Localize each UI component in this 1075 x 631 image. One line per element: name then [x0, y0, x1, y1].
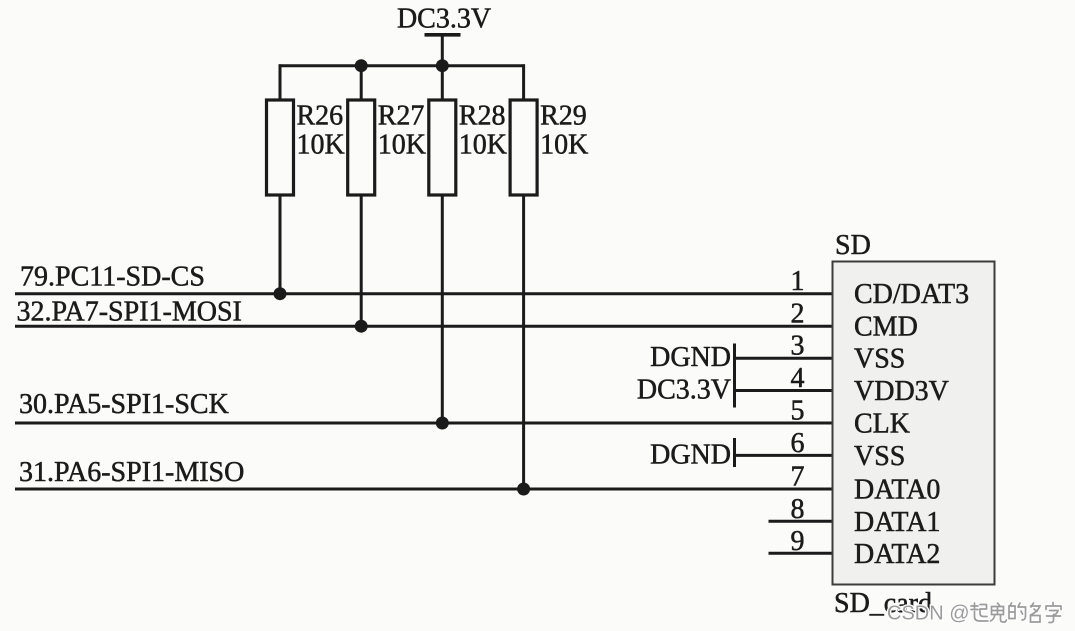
svg-text:3: 3 [791, 331, 805, 362]
svg-text:5: 5 [791, 396, 805, 427]
svg-text:10K: 10K [378, 130, 426, 161]
junction dot SCK R28 [436, 417, 449, 430]
svg-text:DGND: DGND [650, 440, 731, 471]
junction dot CS R26 [274, 287, 287, 300]
svg-text:2: 2 [791, 299, 805, 330]
svg-text:9: 9 [791, 526, 805, 557]
svg-text:R27: R27 [378, 101, 425, 132]
wire R28 bottom to net SCK [441, 194, 444, 424]
svg-text:8: 8 [791, 494, 805, 525]
wire stub to R26 top [279, 64, 282, 101]
svg-text:SD: SD [835, 230, 871, 261]
svg-text:VDD3V: VDD3V [854, 376, 949, 407]
wire net tick pins 3-4 [733, 344, 736, 408]
svg-text:1: 1 [791, 266, 805, 297]
svg-text:DC3.3V: DC3.3V [397, 4, 491, 35]
watermark CJK glyph de [1009, 603, 1026, 620]
resistor R28 [429, 100, 507, 195]
svg-text:VSS: VSS [854, 441, 905, 472]
wire net tick pin 6 [733, 438, 736, 467]
svg-text:CLK: CLK [854, 409, 910, 440]
wire pin 3 stub [735, 357, 833, 360]
wire stub to R27 top [360, 66, 363, 102]
watermark CJK glyph zi [1046, 603, 1061, 623]
resistor R29 [510, 100, 588, 195]
svg-text:VSS: VSS [854, 344, 905, 375]
wire R27 bottom to net MOSI [360, 194, 363, 327]
watermark CJK glyph qi [971, 603, 988, 621]
svg-text:R29: R29 [540, 101, 587, 132]
wire net MISO to pin 7 [15, 488, 833, 491]
svg-text:DATA1: DATA1 [854, 507, 940, 538]
wire pin 4 stub [735, 389, 833, 392]
wire stub to R29 top [522, 64, 525, 101]
svg-text:CSDN @: CSDN @ [887, 603, 970, 625]
wire bus DC3.3V horizontal [279, 64, 525, 67]
svg-text:32.PA7-SPI1-MOSI: 32.PA7-SPI1-MOSI [17, 297, 242, 328]
svg-text:31.PA6-SPI1-MISO: 31.PA6-SPI1-MISO [19, 457, 244, 488]
svg-text:4: 4 [791, 363, 805, 394]
svg-text:DC3.3V: DC3.3V [637, 375, 731, 406]
svg-text:R28: R28 [459, 101, 506, 132]
wire R26 bottom to net CS [279, 194, 282, 294]
wire pin 8 stub [769, 520, 833, 523]
svg-text:CD/DAT3: CD/DAT3 [854, 279, 969, 310]
wire R29 bottom to net MISO [522, 194, 525, 490]
svg-text:DATA0: DATA0 [854, 475, 940, 506]
svg-text:DATA2: DATA2 [854, 539, 940, 570]
wire power stub [441, 35, 444, 67]
wire net SCK to pin 5 [15, 422, 833, 425]
svg-text:10K: 10K [297, 130, 345, 161]
wire net CS to pin 1 [15, 292, 833, 295]
watermark CJK glyph gui [991, 603, 1007, 622]
connector U1 SD card box [833, 262, 995, 585]
watermark CJK glyph ming [1031, 603, 1041, 622]
svg-text:R26: R26 [297, 101, 344, 132]
svg-text:CMD: CMD [854, 312, 918, 343]
svg-text:DGND: DGND [650, 342, 731, 373]
wire pin 9 stub [769, 552, 833, 555]
power symbol DC3.3V bar [425, 33, 461, 37]
resistor R26 [267, 100, 345, 195]
junction dot MISO R29 [517, 483, 530, 496]
svg-text:6: 6 [791, 428, 805, 459]
svg-text:10K: 10K [540, 130, 588, 161]
svg-text:30.PA5-SPI1-SCK: 30.PA5-SPI1-SCK [19, 389, 229, 420]
junction dot bus R28 [436, 59, 449, 72]
svg-text:10K: 10K [459, 130, 507, 161]
resistor R27 [348, 100, 426, 195]
svg-text:7: 7 [791, 462, 805, 493]
svg-text:79.PC11-SD-CS: 79.PC11-SD-CS [20, 262, 205, 293]
wire net MOSI to pin 2 [15, 325, 833, 328]
junction dot bus R27 [355, 59, 368, 72]
junction dot MOSI R27 [355, 320, 368, 333]
wire stub to R28 top [441, 66, 444, 102]
wire pin 6 stub [735, 454, 833, 457]
